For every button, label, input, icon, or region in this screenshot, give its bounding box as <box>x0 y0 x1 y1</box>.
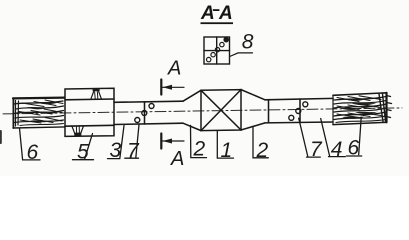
centerline <box>3 108 402 114</box>
leader and label 8 <box>230 53 253 57</box>
leader and label 7 right <box>299 118 321 157</box>
clamp 5 body <box>65 88 114 136</box>
transverse joint line on sheath 3 <box>144 102 146 124</box>
taper 2 left <box>183 90 201 130</box>
sheath 4 (right shaft section) <box>265 98 333 123</box>
section cut mark A top <box>161 80 184 95</box>
svg-text:4: 4 <box>331 138 343 161</box>
svg-text:A: A <box>167 58 181 80</box>
edge artifact left border <box>0 131 2 143</box>
leader and label 2 right <box>253 127 268 158</box>
svg-text:2: 2 <box>193 137 206 160</box>
svg-text:6: 6 <box>348 136 360 159</box>
rope 6 left <box>13 98 65 128</box>
taper 2 right <box>241 90 265 130</box>
leader and label 4 <box>321 119 346 157</box>
leader and label 3 <box>108 126 125 159</box>
screw bottom of clamp 5 <box>72 126 84 136</box>
transverse joint line on sheath 4 <box>299 99 301 122</box>
strand circles in section A-A <box>207 38 229 62</box>
svg-text:8: 8 <box>242 31 254 54</box>
svg-text:A: A <box>218 3 233 24</box>
coupling block 1 (square with diagonals) <box>201 90 241 131</box>
leader and label 7 left <box>125 125 139 159</box>
sheath 3 (left shaft section) <box>114 101 183 124</box>
leader and label 2 left <box>191 125 207 157</box>
section cut mark A bottom <box>161 134 184 149</box>
leader and label 6 right <box>347 117 362 156</box>
svg-text:5: 5 <box>77 140 89 163</box>
svg-text:6: 6 <box>27 141 39 164</box>
svg-text:1: 1 <box>221 139 233 162</box>
leader and label 6 left <box>20 128 41 160</box>
svg-text:7: 7 <box>127 139 140 162</box>
leader and label 1 <box>217 131 233 159</box>
svg-text:2: 2 <box>256 139 269 162</box>
svg-text:3: 3 <box>110 139 122 162</box>
balls 7 left <box>135 104 154 123</box>
svg-text:A: A <box>200 3 215 24</box>
svg-text:A: A <box>170 148 184 170</box>
svg-text:7: 7 <box>310 138 323 161</box>
rope 6 right <box>333 93 392 125</box>
title A-A <box>200 3 233 24</box>
screw top of clamp 5 <box>91 89 101 99</box>
joint line right of taper <box>268 100 270 123</box>
leader and label 5 <box>73 134 94 160</box>
section view A-A square (item 8 view) <box>204 37 230 64</box>
balls 7 right <box>289 102 308 121</box>
